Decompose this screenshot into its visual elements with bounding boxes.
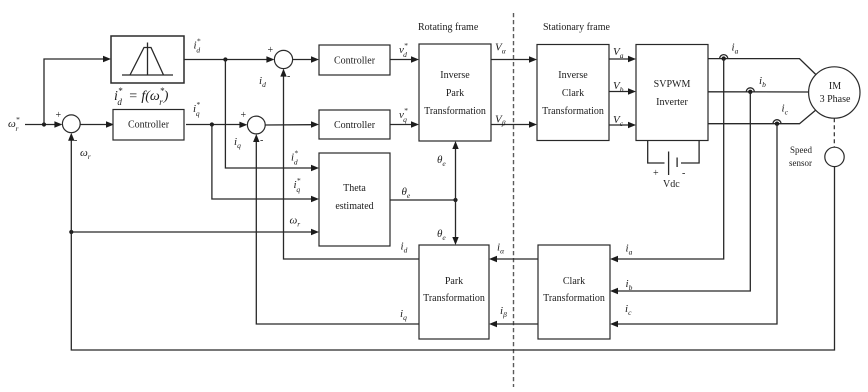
svg-text:Controller: Controller bbox=[128, 120, 170, 131]
node branch of omega_r* bbox=[42, 122, 46, 126]
label Rotating frame bbox=[418, 22, 479, 33]
label i_b at Clark bbox=[626, 278, 633, 292]
wire i_q Park to S3 bbox=[253, 134, 419, 324]
wire i_b tap to Clark bbox=[610, 92, 750, 294]
summing junction S2 bbox=[268, 45, 293, 82]
node theta_e bbox=[453, 198, 457, 202]
Vdc battery B1 bbox=[648, 141, 699, 191]
current sensor CT1 bbox=[720, 55, 728, 61]
wire theta_e up to Inverse Park bbox=[452, 141, 458, 200]
label V_beta bbox=[495, 114, 506, 128]
svg-text:SVPWM: SVPWM bbox=[654, 79, 691, 90]
label i_q at Park bbox=[400, 308, 407, 322]
svg-text:Park: Park bbox=[446, 88, 464, 99]
svg-text:sensor: sensor bbox=[789, 158, 812, 168]
svg-text:Rotating frame: Rotating frame bbox=[418, 22, 479, 33]
theta estimated block bbox=[319, 153, 390, 246]
controller block C1 bbox=[113, 110, 184, 141]
label V_a bbox=[613, 46, 624, 60]
wire theta output to theta_e node bbox=[390, 199, 456, 201]
svg-text:-: - bbox=[287, 71, 290, 82]
inverse park transformation block U1 bbox=[419, 44, 491, 141]
label v_d* bbox=[399, 41, 408, 59]
svg-text:3 Phase: 3 Phase bbox=[820, 94, 851, 105]
label i_d at Park bbox=[401, 241, 408, 255]
label i_d feedback bbox=[259, 75, 266, 89]
node omega_r branch bbox=[69, 230, 73, 234]
SVPWM inverter block U3 bbox=[636, 45, 708, 141]
label Speed sensor bbox=[789, 145, 812, 168]
controller block C3 bbox=[319, 110, 390, 139]
label omega_r theta input bbox=[290, 215, 301, 229]
clark transformation block U4 bbox=[538, 245, 610, 339]
wire phase b SVPWM to motor bbox=[708, 91, 809, 93]
speed sensor SS1 bbox=[825, 147, 844, 166]
summing junction S1 bbox=[56, 110, 81, 146]
flux weakening function block F1 bbox=[111, 36, 184, 83]
svg-text:Inverse: Inverse bbox=[440, 70, 470, 81]
svg-text:-: - bbox=[74, 135, 77, 146]
wire S1 to Controller C1 bbox=[80, 121, 114, 127]
label V_c bbox=[613, 114, 624, 128]
label i_a top bbox=[732, 42, 739, 56]
svg-text:Transformation: Transformation bbox=[424, 106, 486, 117]
wire V_beta bbox=[491, 121, 537, 127]
current sensor CT3 bbox=[773, 120, 781, 126]
wire V_a bbox=[609, 56, 636, 62]
label i_d* theta input bbox=[291, 149, 298, 167]
label v_q* bbox=[399, 106, 408, 124]
park transformation block U5 bbox=[419, 245, 489, 339]
svg-text:Clark: Clark bbox=[563, 276, 585, 287]
inverse clark transformation block U2 bbox=[537, 45, 609, 141]
svg-text:Controller: Controller bbox=[334, 120, 376, 131]
wire i_c tap to Clark bbox=[610, 124, 777, 328]
label V_alpha bbox=[495, 42, 507, 56]
svg-text:+: + bbox=[653, 168, 659, 179]
svg-text:estimated: estimated bbox=[335, 201, 373, 212]
wire flux block to S2 bbox=[184, 56, 274, 62]
label i_q* theta input bbox=[294, 176, 301, 194]
label i_q* bbox=[193, 100, 200, 118]
label omega_r below S1 bbox=[80, 147, 91, 161]
svg-text:Inverter: Inverter bbox=[656, 97, 688, 108]
svg-text:Stationary frame: Stationary frame bbox=[543, 22, 610, 33]
wire S2 to Controller C2 bbox=[293, 56, 319, 62]
label i_b top bbox=[759, 75, 766, 89]
wire omega_r* input bbox=[25, 121, 62, 127]
wire theta_e down to Park bbox=[452, 200, 458, 245]
wire i_alpha Clark to Park bbox=[489, 256, 538, 262]
wire phase c SVPWM to motor bbox=[708, 110, 816, 124]
label i_a at Clark bbox=[626, 243, 633, 257]
svg-text:Transformation: Transformation bbox=[423, 293, 485, 304]
svg-text:Theta: Theta bbox=[343, 183, 366, 194]
wire i_q* down to theta block bbox=[212, 125, 319, 203]
label theta_e mid bbox=[402, 186, 411, 200]
wire C3 to Inverse Park bbox=[390, 121, 419, 127]
wire omega_r to theta block bbox=[71, 229, 319, 235]
wire phase a SVPWM to motor bbox=[708, 59, 816, 75]
wire S3 to Controller C3 bbox=[265, 121, 319, 127]
svg-text:+: + bbox=[241, 110, 247, 121]
label i_alpha bbox=[497, 242, 505, 256]
label V_b bbox=[613, 80, 624, 94]
svg-text:+: + bbox=[268, 45, 274, 56]
label i_q feedback bbox=[234, 136, 241, 150]
label i_c at Clark bbox=[625, 303, 632, 317]
label omega_r* bbox=[8, 115, 20, 133]
svg-text:Inverse: Inverse bbox=[558, 70, 588, 81]
wire i_d* down to theta block bbox=[225, 60, 319, 172]
controller block C2 bbox=[319, 45, 390, 75]
svg-text:Transformation: Transformation bbox=[542, 106, 604, 117]
summing junction S3 bbox=[241, 110, 266, 146]
wire speed sensor feedback bbox=[68, 133, 834, 350]
label Stationary frame bbox=[543, 22, 610, 33]
current sensor CT2 bbox=[746, 88, 754, 94]
node i_q* branch bbox=[210, 122, 214, 126]
label i_d* = f(omega_r*) bbox=[114, 86, 169, 107]
svg-text:Clark: Clark bbox=[562, 88, 584, 99]
dashed link motor to speed sensor bbox=[833, 118, 835, 147]
svg-text:+: + bbox=[56, 110, 62, 121]
svg-text:Vdc: Vdc bbox=[663, 179, 680, 190]
label i_d* bbox=[194, 37, 201, 55]
svg-text:IM: IM bbox=[829, 81, 841, 92]
svg-text:Transformation: Transformation bbox=[543, 293, 605, 304]
label theta_e upper bbox=[437, 154, 446, 168]
wire i_beta Clark to Park bbox=[489, 321, 538, 327]
svg-text:Controller: Controller bbox=[334, 56, 376, 67]
wire C2 to Inverse Park bbox=[390, 56, 419, 62]
wire V_b bbox=[609, 88, 636, 94]
wire C1 to S3 bbox=[186, 122, 247, 128]
label theta_e lower bbox=[437, 228, 446, 242]
wire i_a tap to Clark bbox=[610, 59, 724, 263]
svg-text:Speed: Speed bbox=[790, 145, 812, 155]
svg-text:-: - bbox=[682, 168, 685, 179]
wire V_c bbox=[609, 122, 636, 128]
svg-text:Park: Park bbox=[445, 276, 463, 287]
label i_c top bbox=[782, 103, 789, 117]
wire omega_r* branch up to flux block bbox=[44, 56, 111, 125]
svg-text:-: - bbox=[260, 135, 263, 146]
label i_beta bbox=[500, 305, 507, 319]
dashed frame separator bbox=[513, 13, 515, 387]
wire i_d Park to S2 bbox=[280, 69, 419, 259]
motor IM 3 Phase M1 bbox=[809, 67, 860, 118]
wire V_alpha bbox=[491, 56, 537, 62]
node i_d* branch bbox=[223, 57, 227, 61]
